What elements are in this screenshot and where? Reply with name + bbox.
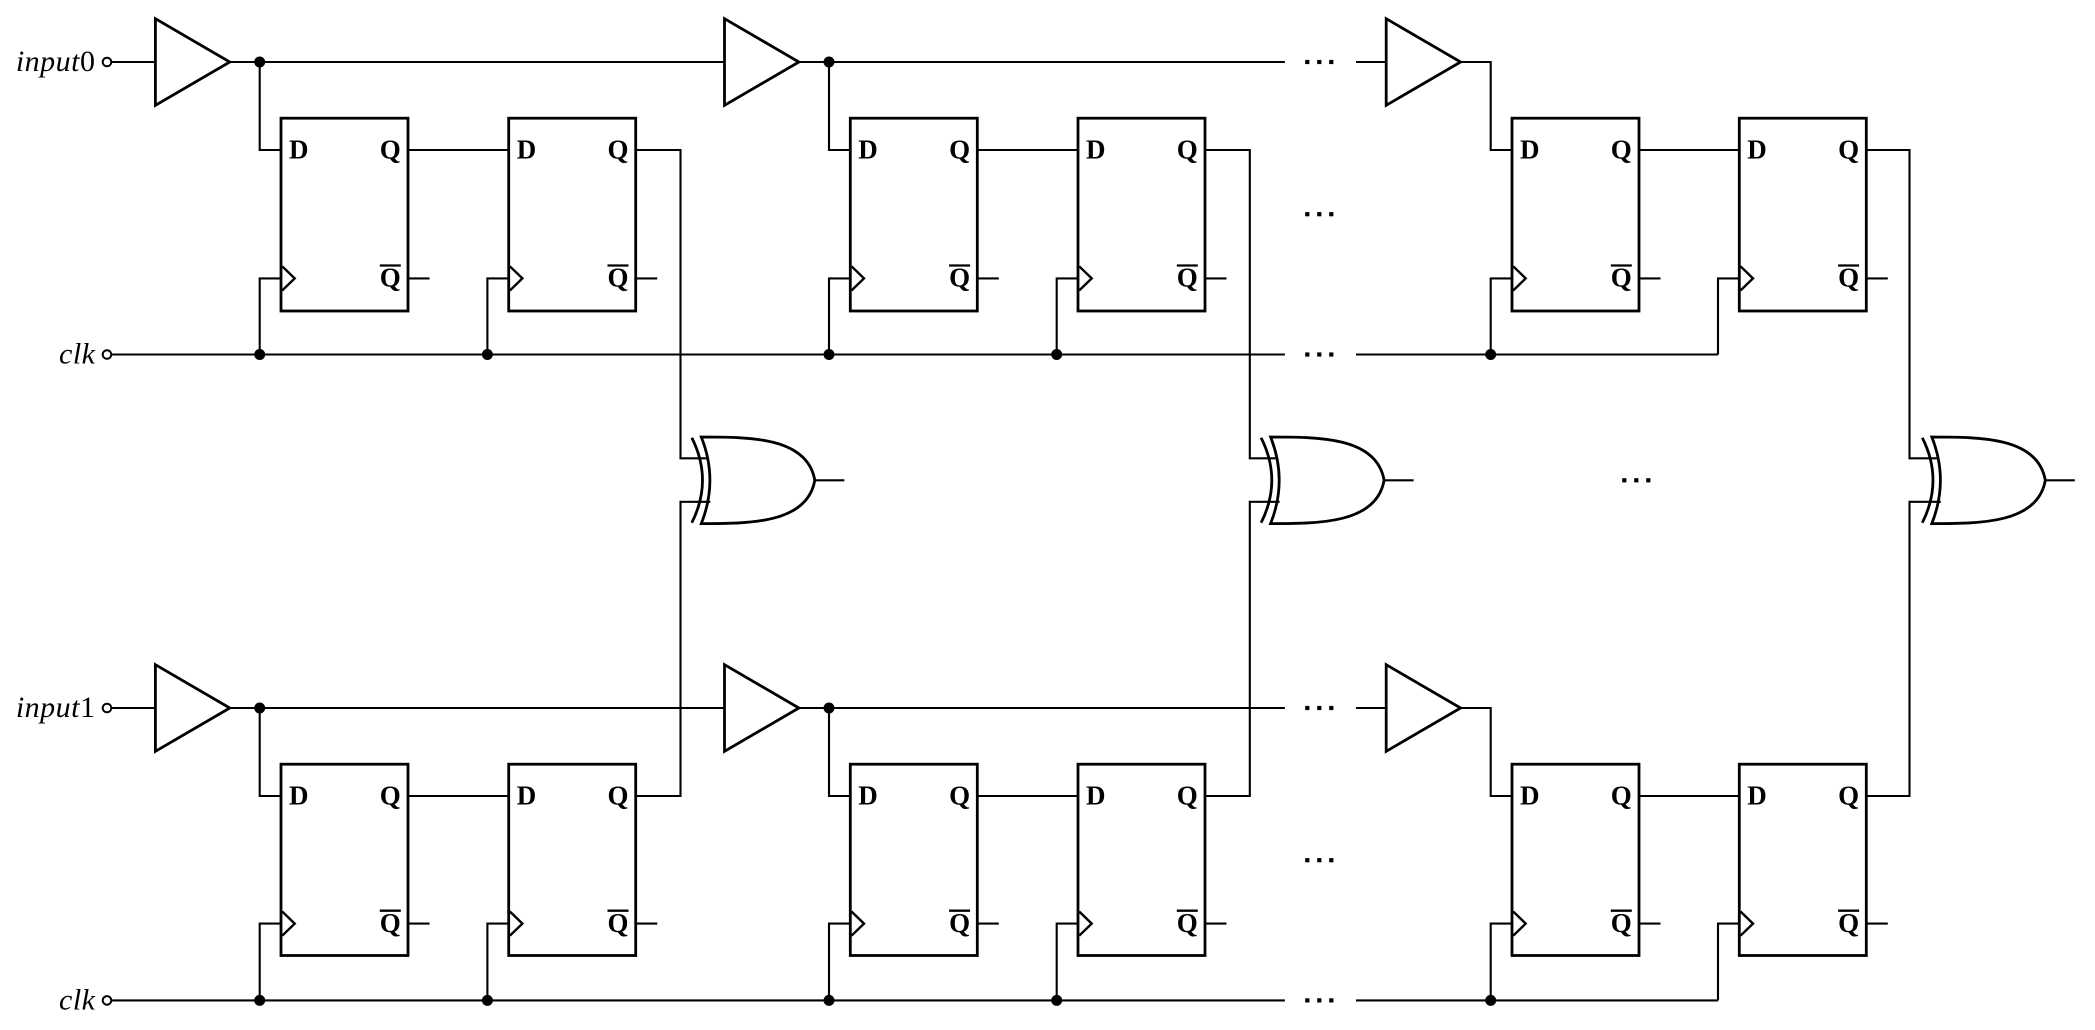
wire FF7 Q to FF8 D bbox=[408, 795, 509, 797]
junction clk top node 1 bbox=[254, 349, 265, 360]
wire clk line (bottom, left of gap) bbox=[111, 999, 1285, 1001]
wire clk riser to FF3 clock pin bbox=[829, 278, 850, 354]
wire FF2 Q to XOR X1 top input bbox=[636, 150, 711, 458]
wire FF10 Q up to XOR X2 bottom input bbox=[1205, 502, 1280, 796]
junction clk bottom node 2 bbox=[482, 995, 493, 1006]
wire input1 terminal to buffer U4 bbox=[111, 707, 155, 709]
wire input0 row resume to buffer U3 bbox=[1356, 61, 1386, 63]
buffer U4 bbox=[155, 665, 229, 752]
svg-text:D: D bbox=[517, 780, 537, 810]
svg-text:Q: Q bbox=[1838, 780, 1859, 810]
xor gate X3 bbox=[1922, 437, 2045, 524]
wire X1 output bbox=[815, 479, 845, 481]
wire U4 output to buffer U5 input (net in1a) bbox=[230, 707, 725, 709]
svg-text:Q: Q bbox=[1611, 908, 1632, 938]
junction clk bottom node 5 bbox=[1485, 995, 1496, 1006]
wire FF1 Q to FF2 D bbox=[408, 149, 509, 151]
wire node in1b down to FF9 D input bbox=[829, 708, 850, 796]
clock edge-trigger mark bbox=[510, 912, 523, 936]
flip-flop FF11 (D flip-flop, bottom row) bbox=[1512, 764, 1639, 955]
ellipsis continuation clk row (bottom) bbox=[1305, 998, 1333, 1002]
svg-text:input1: input1 bbox=[16, 691, 96, 724]
wire FF8 Q up to XOR X1 bottom input bbox=[636, 502, 711, 796]
wire clk line (top, right of gap) bbox=[1356, 353, 1718, 355]
wire U2 output to continuation gap (net in0b) bbox=[799, 61, 1285, 63]
wire U3 output down to FF5 D input bbox=[1461, 62, 1512, 150]
ellipsis continuation xor row bbox=[1622, 478, 1650, 482]
wire FF11 Q to FF12 D bbox=[1639, 795, 1739, 797]
wire FF4 Qbar stub bbox=[1205, 277, 1227, 279]
clock edge-trigger mark bbox=[852, 912, 865, 936]
wire input1 row resume to buffer U6 bbox=[1356, 707, 1386, 709]
flip-flop FF10 (D flip-flop, bottom row) bbox=[1078, 764, 1205, 955]
wire node in0b down to FF3 D input bbox=[829, 62, 850, 150]
wire clk riser to FF10 clock pin bbox=[1057, 924, 1078, 1001]
wire FF12 Q up to XOR X3 bottom input bbox=[1866, 502, 1941, 796]
clock edge-trigger mark bbox=[1513, 266, 1526, 290]
xor gate X2 bbox=[1261, 437, 1384, 524]
svg-text:D: D bbox=[1520, 134, 1540, 164]
wire FF10 Qbar stub bbox=[1205, 923, 1227, 925]
svg-text:D: D bbox=[1086, 134, 1106, 164]
junction clk top node 4 bbox=[1051, 349, 1062, 360]
wire clk line (bottom, right of gap) bbox=[1356, 999, 1718, 1001]
svg-text:clk: clk bbox=[59, 337, 96, 370]
wire clk riser to FF6 clock pin bbox=[1718, 278, 1739, 354]
wire U5 output to continuation gap (net in1b) bbox=[799, 707, 1285, 709]
wire input0 terminal to buffer U1 bbox=[111, 61, 155, 63]
junction clk bottom node 3 bbox=[824, 995, 835, 1006]
svg-text:Q: Q bbox=[380, 134, 401, 164]
junction node in0a bbox=[254, 57, 265, 68]
svg-text:input0: input0 bbox=[16, 45, 96, 78]
wire FF3 Q to FF4 D bbox=[977, 149, 1078, 151]
clock edge-trigger mark bbox=[1079, 912, 1092, 936]
clock edge-trigger mark bbox=[1513, 912, 1526, 936]
wire FF5 Q to FF6 D bbox=[1639, 149, 1739, 151]
wire clk riser to FF12 clock pin bbox=[1718, 924, 1739, 1001]
svg-text:Q: Q bbox=[1177, 134, 1198, 164]
junction clk top node 5 bbox=[1485, 349, 1496, 360]
svg-text:Q: Q bbox=[1611, 263, 1632, 293]
xor second (detached) input arc bbox=[1922, 438, 1933, 523]
svg-text:D: D bbox=[1086, 780, 1106, 810]
wire clk riser to FF8 clock pin bbox=[487, 924, 508, 1001]
clock edge-trigger mark bbox=[282, 266, 295, 290]
svg-text:Q: Q bbox=[607, 908, 628, 938]
wire FF4 Q to XOR X2 top input bbox=[1205, 150, 1280, 458]
xor second (detached) input arc bbox=[692, 438, 703, 523]
wire FF5 Qbar stub bbox=[1639, 277, 1661, 279]
junction node in0b bbox=[824, 57, 835, 68]
clock edge-trigger mark bbox=[1079, 266, 1092, 290]
wire X2 output bbox=[1384, 479, 1414, 481]
wire FF3 Qbar stub bbox=[977, 277, 999, 279]
flip-flop FF9 (D flip-flop, bottom row) bbox=[850, 764, 977, 955]
input terminal input1 bbox=[103, 704, 112, 713]
buffer U1 bbox=[155, 19, 229, 106]
wire clk line (top, left of gap) bbox=[111, 353, 1285, 355]
wire FF2 Qbar stub bbox=[636, 277, 658, 279]
buffer U3 bbox=[1386, 19, 1460, 106]
buffer U2 bbox=[725, 19, 799, 106]
svg-text:Q: Q bbox=[1177, 780, 1198, 810]
wire clk riser to FF2 clock pin bbox=[487, 278, 508, 354]
clock edge-trigger mark bbox=[1741, 912, 1754, 936]
wire U6 output down to FF11 D input bbox=[1461, 708, 1512, 796]
svg-text:Q: Q bbox=[949, 134, 970, 164]
wire FF7 Qbar stub bbox=[408, 923, 430, 925]
input terminal input0 bbox=[103, 58, 112, 67]
ellipsis continuation input0 row bbox=[1305, 60, 1333, 64]
flip-flop FF12 (D flip-flop, bottom row) bbox=[1739, 764, 1866, 955]
clock edge-trigger mark bbox=[510, 266, 523, 290]
svg-text:Q: Q bbox=[607, 134, 628, 164]
junction clk bottom node 4 bbox=[1051, 995, 1062, 1006]
xor gate X1 bbox=[692, 437, 815, 524]
svg-text:clk: clk bbox=[59, 983, 96, 1016]
clk terminal (bottom) bbox=[103, 996, 112, 1005]
flip-flop FF6 (D flip-flop, top row) bbox=[1739, 118, 1866, 311]
wire clk riser to FF1 clock pin bbox=[260, 278, 281, 354]
wire clk riser to FF7 clock pin bbox=[260, 924, 281, 1001]
svg-text:Q: Q bbox=[1838, 134, 1859, 164]
flip-flop FF3 (D flip-flop, top row) bbox=[850, 118, 977, 311]
wire FF12 Qbar stub bbox=[1866, 923, 1888, 925]
svg-text:D: D bbox=[1747, 780, 1767, 810]
wire FF8 Qbar stub bbox=[636, 923, 658, 925]
wire FF1 Qbar stub bbox=[408, 277, 430, 279]
svg-text:Q: Q bbox=[380, 263, 401, 293]
svg-text:D: D bbox=[289, 134, 309, 164]
wire FF6 Q to XOR X3 top input bbox=[1866, 150, 1941, 458]
svg-text:Q: Q bbox=[380, 908, 401, 938]
ellipsis continuation clk row (top) bbox=[1305, 352, 1333, 356]
ellipsis continuation FF chain (bottom row) bbox=[1305, 858, 1333, 862]
wire node in1a down to FF7 D input bbox=[260, 708, 281, 796]
buffer U5 bbox=[725, 665, 799, 752]
svg-text:Q: Q bbox=[607, 780, 628, 810]
svg-text:Q: Q bbox=[1611, 780, 1632, 810]
ellipsis continuation FF chain (top row) bbox=[1305, 212, 1333, 216]
wire FF11 Qbar stub bbox=[1639, 923, 1661, 925]
clock edge-trigger mark bbox=[282, 912, 295, 936]
svg-text:Q: Q bbox=[380, 780, 401, 810]
svg-text:Q: Q bbox=[1177, 263, 1198, 293]
clock edge-trigger mark bbox=[852, 266, 865, 290]
wire clk riser to FF4 clock pin bbox=[1057, 278, 1078, 354]
svg-text:D: D bbox=[1520, 780, 1540, 810]
buffer U6 bbox=[1386, 665, 1460, 752]
wire node in0a down to FF1 D input bbox=[260, 62, 281, 150]
svg-text:Q: Q bbox=[949, 908, 970, 938]
flip-flop FF2 (D flip-flop, top row) bbox=[509, 118, 636, 311]
xor second (detached) input arc bbox=[1261, 438, 1272, 523]
wire FF9 Qbar stub bbox=[977, 923, 999, 925]
clk terminal (top) bbox=[103, 350, 112, 359]
wire clk riser to FF5 clock pin bbox=[1491, 278, 1512, 354]
svg-text:D: D bbox=[858, 780, 878, 810]
wire FF6 Qbar stub bbox=[1866, 277, 1888, 279]
wire X3 output bbox=[2045, 479, 2075, 481]
wire clk riser to FF9 clock pin bbox=[829, 924, 850, 1001]
junction node in1a bbox=[254, 703, 265, 714]
junction clk top node 2 bbox=[482, 349, 493, 360]
svg-text:Q: Q bbox=[949, 263, 970, 293]
flip-flop FF1 (D flip-flop, top row) bbox=[281, 118, 408, 311]
clock edge-trigger mark bbox=[1741, 266, 1754, 290]
svg-text:Q: Q bbox=[949, 780, 970, 810]
junction clk bottom node 1 bbox=[254, 995, 265, 1006]
ellipsis continuation input1 row bbox=[1305, 706, 1333, 710]
junction node in1b bbox=[824, 703, 835, 714]
wire clk riser to FF11 clock pin bbox=[1491, 924, 1512, 1001]
junction clk top node 3 bbox=[824, 349, 835, 360]
flip-flop FF4 (D flip-flop, top row) bbox=[1078, 118, 1205, 311]
svg-text:D: D bbox=[1747, 134, 1767, 164]
svg-text:Q: Q bbox=[1177, 908, 1198, 938]
svg-text:Q: Q bbox=[1838, 908, 1859, 938]
flip-flop FF8 (D flip-flop, bottom row) bbox=[509, 764, 636, 955]
flip-flop FF5 (D flip-flop, top row) bbox=[1512, 118, 1639, 311]
wire FF9 Q to FF10 D bbox=[977, 795, 1078, 797]
svg-text:D: D bbox=[517, 134, 537, 164]
wire U1 output to buffer U2 input (net in0a) bbox=[230, 61, 725, 63]
svg-text:Q: Q bbox=[1838, 263, 1859, 293]
flip-flop FF7 (D flip-flop, bottom row) bbox=[281, 764, 408, 955]
svg-text:Q: Q bbox=[1611, 134, 1632, 164]
svg-text:D: D bbox=[289, 780, 309, 810]
svg-text:D: D bbox=[858, 134, 878, 164]
svg-text:Q: Q bbox=[607, 263, 628, 293]
